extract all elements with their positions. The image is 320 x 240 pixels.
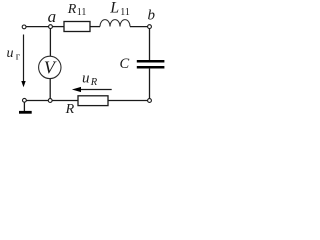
voltage arrow uR: [79, 89, 112, 91]
svg-text:a: a: [48, 7, 57, 26]
source V: [39, 56, 61, 78]
terminal left top: [22, 25, 26, 29]
svg-text:R: R: [65, 102, 75, 117]
svg-text:C: C: [120, 56, 130, 72]
node bottom right: [148, 99, 152, 103]
voltage arrow u_g: [23, 35, 25, 83]
capacitor C: [137, 60, 165, 63]
wire R11 to L11: [90, 26, 100, 28]
svg-text:u: u: [7, 46, 14, 61]
wire node b down to capacitor: [149, 29, 151, 61]
svg-text:b: b: [148, 8, 156, 24]
svg-text:11: 11: [77, 7, 87, 18]
resistor R: [78, 96, 108, 106]
ground: [23, 102, 25, 111]
svg-text:г: г: [16, 52, 21, 63]
wire R to bottom junction: [52, 100, 78, 102]
svg-text:L: L: [109, 0, 119, 17]
svg-text:R: R: [90, 77, 98, 88]
junction bottom center: [48, 99, 52, 103]
wire node a down to source: [49, 29, 51, 57]
wire capacitor down to bottom node: [149, 69, 151, 99]
svg-text:u: u: [82, 70, 90, 86]
node a: [49, 25, 53, 29]
wire junction to bottom left node: [26, 100, 48, 102]
inductor L11: [100, 20, 130, 27]
wire bottom right segment: [108, 100, 148, 102]
node bottom left: [23, 98, 27, 102]
node b: [148, 25, 152, 29]
svg-text:R: R: [67, 2, 77, 17]
wire source to bottom junction: [49, 79, 51, 99]
wire top left segment: [26, 26, 48, 28]
svg-text:11: 11: [120, 7, 130, 18]
wire L11 to node b: [130, 26, 148, 28]
resistor R11: [64, 22, 90, 32]
wire a to R11: [53, 26, 65, 28]
